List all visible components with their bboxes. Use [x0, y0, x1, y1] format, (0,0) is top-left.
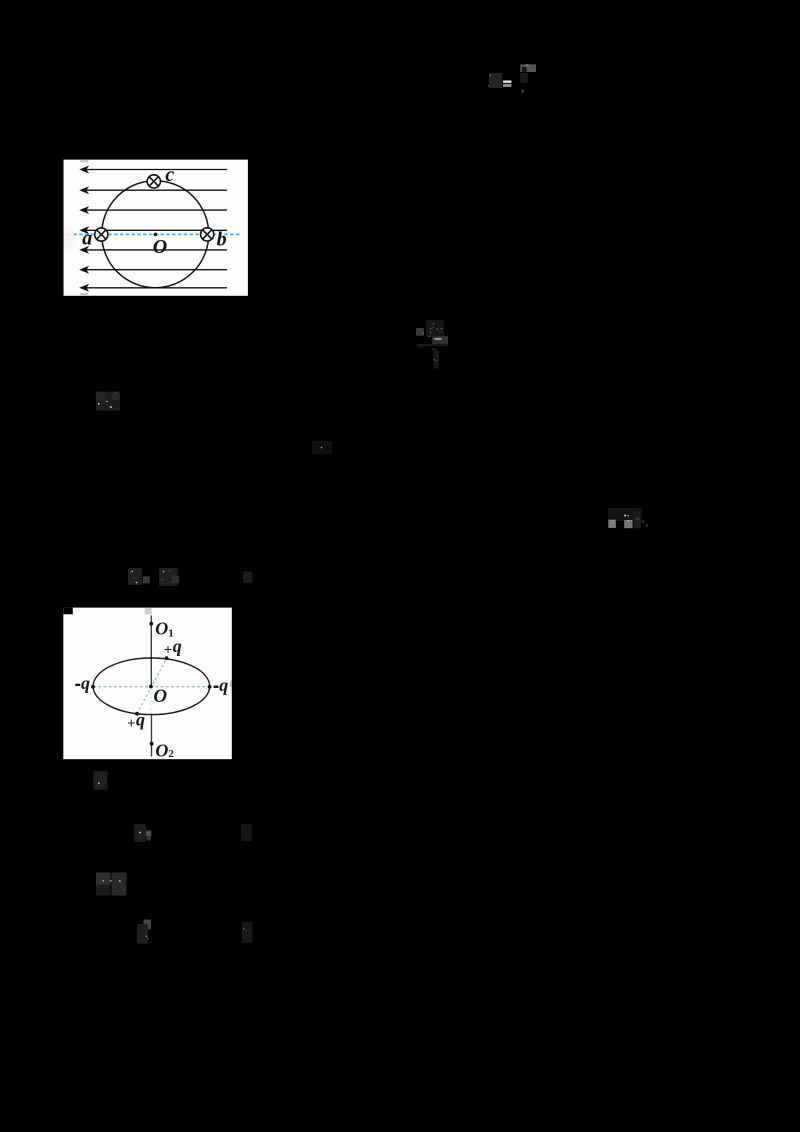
field line arrow 2	[87, 189, 228, 191]
black notch top-left	[63, 608, 73, 615]
ghost option row B right	[242, 922, 253, 943]
figure 2 white panel	[63, 608, 232, 760]
flux symbol b	[201, 228, 214, 241]
vertical axis line lower	[151, 714, 153, 757]
dot O2	[150, 742, 154, 746]
svg-text:+: +	[127, 716, 135, 732]
dot +q bottom	[135, 712, 139, 716]
ghost option row A	[134, 824, 151, 842]
svg-text:q: q	[173, 636, 182, 656]
arrowhead 6	[79, 266, 89, 274]
dot +q top	[165, 656, 169, 660]
dashed cyan diameter line	[74, 233, 240, 235]
gray wash inside panel left edge	[61, 225, 73, 251]
field line arrow 4	[87, 229, 228, 231]
arrowhead 7	[79, 284, 89, 292]
ghost fraction formula mid	[416, 320, 448, 368]
diagonal dashed line	[137, 658, 167, 714]
ghost cluster O1 O2 row: glyph 1	[128, 568, 150, 585]
circular region boundary	[102, 181, 209, 288]
dot -q right	[208, 685, 212, 689]
field line arrow 3	[87, 209, 228, 211]
gray tab top	[145, 608, 152, 615]
svg-text:q: q	[219, 675, 228, 695]
arrowhead 4	[79, 226, 89, 234]
gray tick right	[230, 680, 232, 686]
flux symbol a	[95, 228, 108, 241]
ghost question 2 label	[96, 873, 127, 896]
dot -q left	[91, 685, 95, 689]
svg-text:q: q	[136, 710, 145, 730]
field line arrow 6	[87, 269, 228, 271]
ghost option row B	[137, 920, 151, 944]
field line arrow 5	[87, 249, 228, 251]
ghost glyph below figure 2	[94, 771, 108, 790]
ghost cluster O1 O2 row: glyph 2	[159, 568, 179, 586]
ghost cluster O1 O2 row: glyph 3	[243, 572, 253, 584]
dot O	[149, 685, 153, 689]
horizontal dashed axis	[93, 686, 210, 688]
gray tick bottom	[80, 293, 88, 296]
label -q right	[214, 686, 219, 688]
center dot O	[154, 233, 158, 237]
arrowhead 2	[79, 186, 89, 194]
arrowhead 1	[79, 166, 89, 174]
ellipse	[93, 658, 210, 715]
gray tick top	[80, 160, 88, 163]
ghost option row A right	[241, 824, 252, 841]
svg-text:O: O	[153, 686, 167, 707]
field line arrow 7	[87, 287, 228, 289]
ghost formula B= top	[488, 64, 536, 93]
vertical axis line upper	[150, 615, 152, 686]
figure 1 white panel	[64, 160, 248, 296]
pale first dash	[67, 234, 70, 236]
dot O1	[149, 622, 153, 626]
svg-text:+: +	[164, 643, 172, 659]
vertical dashed segment below O	[150, 689, 152, 714]
svg-text:a: a	[82, 228, 92, 250]
svg-text:c: c	[165, 164, 174, 186]
arrowhead 5	[79, 246, 89, 254]
label -q left	[75, 684, 80, 686]
svg-text:q: q	[81, 673, 90, 693]
ghost cluster right 2R2R	[608, 508, 648, 528]
arrowhead 3	[79, 206, 89, 214]
svg-text:O: O	[153, 236, 167, 258]
ghost dot mid page	[312, 441, 332, 454]
svg-text:b: b	[217, 229, 227, 251]
field line arrow 1	[87, 169, 228, 171]
flux symbol c	[147, 175, 160, 188]
ghost glyph cluster left upper	[96, 392, 120, 411]
